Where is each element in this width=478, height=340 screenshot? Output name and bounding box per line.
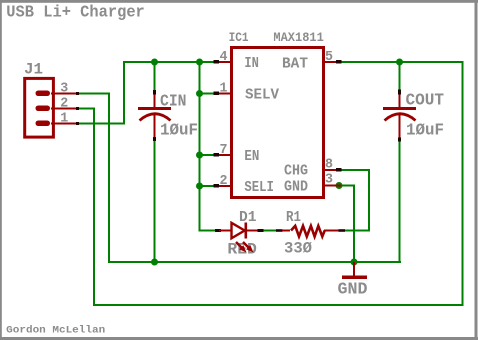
IC IC1 MAX1811 body xyxy=(232,48,324,198)
svg-text:1ØuF: 1ØuF xyxy=(160,120,198,139)
IC1 pin stub EN xyxy=(214,153,231,157)
svg-text:COUT: COUT xyxy=(406,90,445,109)
capacitor COUT xyxy=(383,90,416,142)
svg-text:1: 1 xyxy=(60,111,68,127)
junction CIN bottom xyxy=(151,259,158,266)
connector J1 xyxy=(25,78,79,137)
svg-text:5: 5 xyxy=(325,49,333,65)
IC1 pin stub GND xyxy=(325,185,341,187)
svg-text:3: 3 xyxy=(325,171,333,187)
wire EN xyxy=(199,154,216,156)
wire CIN bottom xyxy=(154,139,156,263)
junction SELV xyxy=(196,90,203,97)
wire SELI xyxy=(199,185,216,187)
wire BAT right vertical xyxy=(462,61,464,306)
svg-text:MAX1811: MAX1811 xyxy=(273,30,324,45)
IC1 pin stub CHG xyxy=(325,168,342,172)
svg-text:J1: J1 xyxy=(24,61,43,79)
resistor R1 xyxy=(276,226,345,237)
junction SELI xyxy=(196,183,203,190)
svg-text:SELV: SELV xyxy=(245,86,279,103)
svg-text:R1: R1 xyxy=(286,209,301,226)
wire to D1 anode xyxy=(199,230,218,232)
svg-text:BAT: BAT xyxy=(282,55,308,72)
ground symbol xyxy=(342,262,367,279)
svg-text:EN: EN xyxy=(244,148,259,165)
IC1 pin stub SELV xyxy=(214,92,231,96)
wire R1 right xyxy=(341,230,369,232)
LED D1 emission arrows xyxy=(236,242,254,253)
wire J1 pin1 horizontal xyxy=(79,123,125,125)
wire COUT top xyxy=(399,61,401,91)
svg-text:IC1: IC1 xyxy=(229,30,249,45)
junction IC pin3 xyxy=(336,182,343,189)
svg-text:CIN: CIN xyxy=(160,91,187,110)
junction EN xyxy=(196,152,203,159)
wire D1 to R1 xyxy=(256,230,278,232)
junction COUT top xyxy=(396,59,403,66)
svg-text:4: 4 xyxy=(220,49,228,65)
svg-text:8: 8 xyxy=(325,156,333,172)
junction GND node xyxy=(351,259,358,266)
wire GND horizontal xyxy=(108,261,401,263)
wire J1 pin3 vertical xyxy=(108,93,110,264)
wire J1 pin2 stub xyxy=(79,108,95,110)
wire CHG vertical xyxy=(368,169,370,232)
IC1 pin stub IN xyxy=(214,60,231,64)
wire VBUS vertical xyxy=(199,61,201,232)
svg-text:1: 1 xyxy=(220,81,228,97)
wire J1 pin1 vertical xyxy=(123,61,125,125)
LED D1 xyxy=(215,223,264,239)
svg-text:GND: GND xyxy=(338,280,368,299)
svg-text:7: 7 xyxy=(220,142,228,158)
svg-text:USB Li+ Charger: USB Li+ Charger xyxy=(6,3,145,22)
svg-text:CHG: CHG xyxy=(284,163,308,180)
wire IC GND pin3 horizontal xyxy=(338,185,355,187)
capacitor CIN xyxy=(138,90,171,141)
IC1 pin stub BAT xyxy=(325,60,342,64)
svg-text:1ØuF: 1ØuF xyxy=(406,120,444,139)
svg-text:33Ø: 33Ø xyxy=(284,239,312,257)
wire CHG horizontal xyxy=(340,169,370,171)
svg-text:3: 3 xyxy=(60,81,68,97)
wire SELV xyxy=(199,93,216,95)
junction CIN top xyxy=(151,59,158,66)
svg-text:IN: IN xyxy=(244,55,259,72)
wire IC GND pin3 vertical xyxy=(353,185,355,264)
svg-text:D1: D1 xyxy=(239,209,257,226)
svg-text:2: 2 xyxy=(60,96,68,112)
junction VBUS top xyxy=(196,59,203,66)
wire COUT bottom xyxy=(399,140,401,263)
wire J1 pin3 horizontal xyxy=(79,93,110,95)
IC1 pin stub SELI xyxy=(214,184,231,188)
wire BAT top xyxy=(339,61,463,63)
wire J1 pin2 vertical xyxy=(93,108,95,307)
svg-text:GND: GND xyxy=(284,178,308,195)
wire CIN top xyxy=(154,61,156,92)
svg-text:Gordon McLellan: Gordon McLellan xyxy=(6,325,105,337)
svg-text:SELI: SELI xyxy=(244,179,274,196)
svg-text:2: 2 xyxy=(220,173,228,189)
wire bottom BAT to J1 pin2 xyxy=(93,304,463,306)
wire VBUS top xyxy=(123,61,215,63)
